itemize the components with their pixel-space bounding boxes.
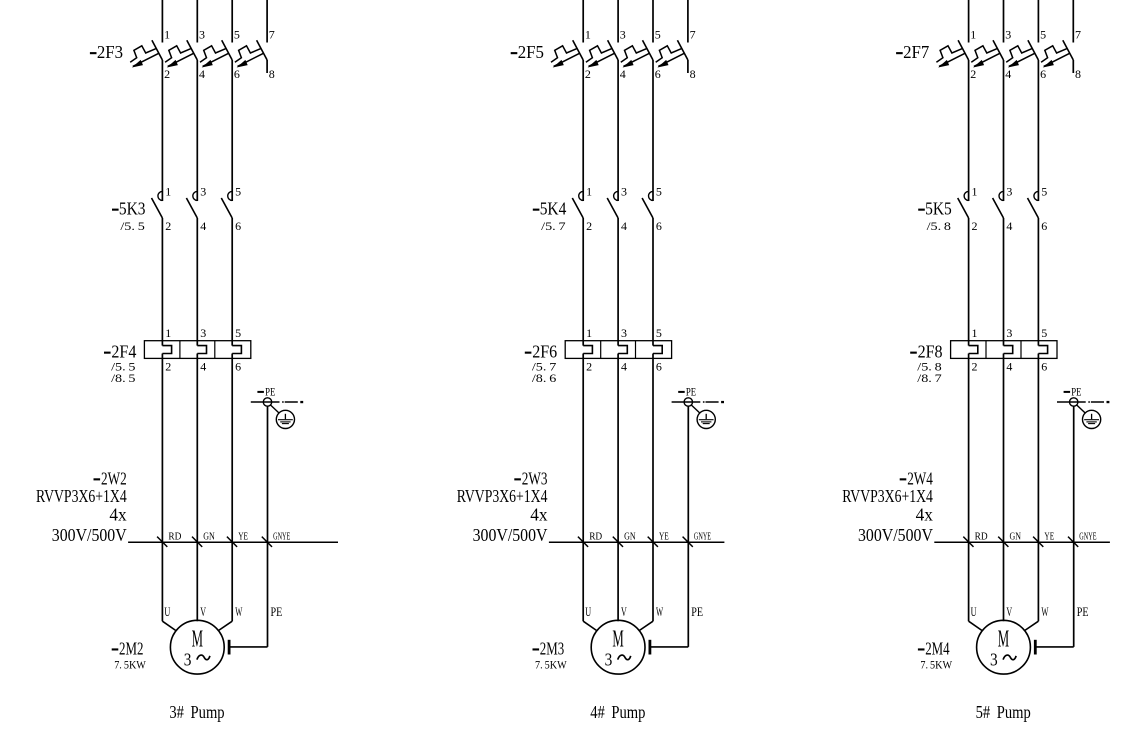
svg-text:YE: YE xyxy=(659,531,669,543)
heater element of -2F8 phase 3 xyxy=(1038,346,1047,354)
wire: contactor to overload relay phase 1 (branch 3) xyxy=(968,218,970,346)
motor frame earth terminal bar (branch 2) xyxy=(649,640,652,655)
wire: PE to motor frame (branch 3) xyxy=(1036,646,1074,648)
svg-text:6: 6 xyxy=(235,360,241,374)
svg-text:4: 4 xyxy=(1005,67,1011,81)
svg-text:3: 3 xyxy=(605,649,613,669)
svg-text:5: 5 xyxy=(235,185,241,199)
svg-text:2: 2 xyxy=(972,219,978,233)
cable label -2W4 xyxy=(900,469,933,489)
motor frame earth terminal bar (branch 3) xyxy=(1034,640,1037,655)
svg-text:4: 4 xyxy=(1006,219,1012,233)
svg-text:U: U xyxy=(585,604,591,619)
wire: branch to protective earth symbol (branch 3) xyxy=(1077,405,1086,413)
cable core marker GNYE (branch 1) xyxy=(262,531,291,547)
contactor label -5K5 xyxy=(918,199,952,219)
circuit breaker -2F5 pole 7-8 xyxy=(656,40,688,67)
contactor -5K5 contact 5-6 xyxy=(1028,191,1039,218)
svg-text:/8. 7: /8. 7 xyxy=(917,373,942,385)
svg-text:7: 7 xyxy=(1075,28,1081,42)
wire: motor lead W diagonal (branch 1) xyxy=(219,621,233,630)
svg-text:6: 6 xyxy=(1041,219,1047,233)
cable core marker YE (branch 2) xyxy=(648,531,669,547)
svg-text:6: 6 xyxy=(235,219,241,233)
label -PE (branch 1) xyxy=(257,386,275,398)
svg-text:5: 5 xyxy=(1040,28,1046,42)
svg-text:4: 4 xyxy=(621,360,627,374)
svg-text:5: 5 xyxy=(1041,185,1047,199)
wire: breaker to contactor phase 1 (branch 3) xyxy=(968,60,970,201)
wire: incoming phase 3 (branch 2) xyxy=(652,0,654,43)
wire: motor lead W diagonal (branch 3) xyxy=(1025,621,1039,630)
svg-text:2M3: 2M3 xyxy=(540,639,565,659)
wire: breaker to contactor phase 1 (branch 2) xyxy=(582,60,584,201)
svg-text:W: W xyxy=(656,604,664,619)
cable core marker GNYE (branch 2) xyxy=(683,531,712,547)
wire: breaker to contactor phase 2 (branch 3) xyxy=(1003,60,1005,201)
wire: contactor to overload relay phase 2 (branch 1) xyxy=(196,218,198,346)
wire: overload relay to motor phase 3 (branch 3) xyxy=(1037,354,1039,622)
svg-text:PE: PE xyxy=(271,604,283,619)
wire: breaker pole 8 stub (branch 3) xyxy=(1072,60,1074,73)
svg-text:2M4: 2M4 xyxy=(925,639,950,659)
svg-text:1: 1 xyxy=(972,326,978,340)
wire: branch to protective earth symbol (branch 2) xyxy=(691,405,700,413)
contactor label -5K3 xyxy=(112,199,146,219)
relay label -2F4 xyxy=(104,342,137,362)
wire: overload relay to motor phase 2 (branch 1) xyxy=(196,354,198,622)
svg-text:3: 3 xyxy=(200,326,206,340)
svg-text:6: 6 xyxy=(656,360,662,374)
svg-text:5: 5 xyxy=(655,28,661,42)
wire: overload relay to motor phase 2 (branch 3) xyxy=(1003,354,1005,622)
svg-text:8: 8 xyxy=(269,67,275,81)
motor label -2M4 xyxy=(918,639,950,659)
svg-text:3: 3 xyxy=(621,185,627,199)
svg-text:/5. 7: /5. 7 xyxy=(541,221,566,233)
relay label -2F6 xyxy=(525,342,558,362)
svg-text:6: 6 xyxy=(1040,67,1046,81)
svg-text:7. 5KW: 7. 5KW xyxy=(535,660,567,672)
wire: breaker to contactor phase 3 (branch 2) xyxy=(652,60,654,201)
wire: overload relay to motor phase 2 (branch 2) xyxy=(617,354,619,622)
svg-text:3# Pump: 3# Pump xyxy=(169,702,224,722)
svg-text:2: 2 xyxy=(164,67,170,81)
svg-text:V: V xyxy=(200,604,206,619)
svg-text:3: 3 xyxy=(620,28,626,42)
svg-text:YE: YE xyxy=(1044,531,1054,543)
svg-text:5: 5 xyxy=(656,326,662,340)
wire: PE bus dash-dot continuation (branch 2) xyxy=(703,401,724,403)
wire: breaker pole 8 stub (branch 1) xyxy=(266,60,268,73)
circuit breaker -2F3 pole 5-6 xyxy=(200,40,232,67)
wire: overload relay to motor phase 1 (branch 2) xyxy=(582,354,584,622)
svg-text:/8. 6: /8. 6 xyxy=(532,373,557,385)
svg-text:2F7: 2F7 xyxy=(903,42,929,62)
svg-text:2F5: 2F5 xyxy=(518,42,544,62)
svg-text:8: 8 xyxy=(1075,67,1081,81)
svg-text:GNYE: GNYE xyxy=(694,531,711,543)
cable -2W2 crossing line xyxy=(128,541,338,543)
svg-text:4# Pump: 4# Pump xyxy=(590,702,645,722)
wire: contactor to overload relay phase 1 (branch 2) xyxy=(582,218,584,346)
svg-text:2: 2 xyxy=(972,360,978,374)
circuit breaker -2F5 pole 1-2 xyxy=(551,40,583,67)
circuit breaker -2F3 pole 7-8 xyxy=(235,40,267,67)
svg-text:6: 6 xyxy=(1041,360,1047,374)
svg-text:1: 1 xyxy=(586,326,592,340)
svg-text:7: 7 xyxy=(690,28,696,42)
svg-text:2F3: 2F3 xyxy=(97,42,123,62)
cable -2W4 crossing line xyxy=(934,541,1110,543)
circuit breaker -2F5 pole 3-4 xyxy=(586,40,618,67)
wire: incoming phase 4 (branch 1) xyxy=(266,0,268,43)
cable core marker YE (branch 1) xyxy=(227,531,248,547)
svg-text:5: 5 xyxy=(1041,326,1047,340)
contactor -5K5 contact 3-4 xyxy=(993,191,1004,218)
svg-text:YE: YE xyxy=(238,531,248,543)
motor label -2M3 xyxy=(533,639,565,659)
svg-text:3: 3 xyxy=(184,649,192,669)
svg-text:M: M xyxy=(612,626,623,652)
svg-text:1: 1 xyxy=(165,185,171,199)
svg-text:2: 2 xyxy=(586,360,592,374)
svg-text:5# Pump: 5# Pump xyxy=(976,702,1031,722)
cable core marker GN (branch 1) xyxy=(192,531,215,547)
heater element of -2F4 phase 1 xyxy=(162,346,171,354)
svg-text:RVVP3X6+1X4: RVVP3X6+1X4 xyxy=(457,486,548,506)
wire: motor lead W diagonal (branch 2) xyxy=(640,621,654,630)
relay label -2F8 xyxy=(910,342,943,362)
wire: incoming phase 3 (branch 1) xyxy=(231,0,233,43)
svg-text:2F4: 2F4 xyxy=(111,342,136,362)
svg-text:3: 3 xyxy=(1006,326,1012,340)
wire: overload relay to motor phase 3 (branch 2) xyxy=(652,354,654,622)
thermal overload relay -2F4 body xyxy=(144,341,250,359)
wire: PE node to motor (branch 3) xyxy=(1073,406,1075,647)
svg-text:5K4: 5K4 xyxy=(540,199,567,219)
svg-text:W: W xyxy=(1041,604,1049,619)
wire: breaker to contactor phase 3 (branch 3) xyxy=(1037,60,1039,201)
svg-text:RVVP3X6+1X4: RVVP3X6+1X4 xyxy=(36,486,127,506)
contactor -5K4 contact 3-4 xyxy=(607,191,618,218)
svg-text:4x: 4x xyxy=(916,505,934,525)
wire: motor lead U diagonal (branch 1) xyxy=(162,621,175,630)
circuit breaker -2F7 pole 7-8 xyxy=(1041,40,1073,67)
node PE (branch 2) xyxy=(684,398,692,406)
svg-text:5: 5 xyxy=(235,326,241,340)
wire: incoming phase 1 (branch 1) xyxy=(161,0,163,43)
svg-text:6: 6 xyxy=(656,219,662,233)
wire: contactor to overload relay phase 3 (branch 2) xyxy=(652,218,654,346)
svg-text:6: 6 xyxy=(234,67,240,81)
svg-text:RD: RD xyxy=(975,531,988,543)
cable core marker RD (branch 2) xyxy=(578,531,602,547)
wire: PE bus dash-dot continuation (branch 3) xyxy=(1088,401,1109,403)
svg-text:U: U xyxy=(164,604,170,619)
svg-text:2: 2 xyxy=(165,360,171,374)
svg-text:2F6: 2F6 xyxy=(532,342,557,362)
breaker label -2F3 xyxy=(90,42,123,62)
cable core marker RD (branch 3) xyxy=(963,531,987,547)
svg-text:/5. 8: /5. 8 xyxy=(917,361,942,373)
wire: incoming phase 4 (branch 3) xyxy=(1072,0,1074,43)
svg-text:3: 3 xyxy=(199,28,205,42)
heater element of -2F8 phase 2 xyxy=(1004,346,1013,354)
wire: PE to motor frame (branch 1) xyxy=(230,646,268,648)
circuit breaker -2F5 pole 5-6 xyxy=(621,40,653,67)
motor -2M4 symbol xyxy=(977,620,1031,674)
wire: incoming phase 2 (branch 2) xyxy=(617,0,619,43)
contactor -5K3 contact 3-4 xyxy=(186,191,197,218)
svg-text:2: 2 xyxy=(970,67,976,81)
motor -2M2 symbol xyxy=(170,620,224,674)
heater element of -2F4 phase 2 xyxy=(197,346,206,354)
circuit breaker -2F7 pole 1-2 xyxy=(936,40,968,67)
protective earth symbol (branch 3) xyxy=(1083,410,1101,428)
svg-text:/5. 7: /5. 7 xyxy=(532,361,557,373)
breaker label -2F5 xyxy=(511,42,544,62)
heater element of -2F4 phase 3 xyxy=(232,346,241,354)
svg-text:GNYE: GNYE xyxy=(1079,531,1096,543)
svg-text:2: 2 xyxy=(165,219,171,233)
contactor -5K3 contact 1-2 xyxy=(152,191,163,218)
svg-text:PE: PE xyxy=(691,604,703,619)
wire: incoming phase 3 (branch 3) xyxy=(1037,0,1039,43)
svg-text:4x: 4x xyxy=(530,505,548,525)
wire: incoming phase 2 (branch 1) xyxy=(196,0,198,43)
svg-text:3: 3 xyxy=(200,185,206,199)
label -PE (branch 3) xyxy=(1064,386,1082,398)
breaker label -2F7 xyxy=(896,42,929,62)
svg-text:/5. 5: /5. 5 xyxy=(111,361,136,373)
svg-text:1: 1 xyxy=(970,28,976,42)
wire: PE bus dash-dot continuation (branch 1) xyxy=(282,401,303,403)
svg-text:/5. 5: /5. 5 xyxy=(120,221,145,233)
label -PE (branch 2) xyxy=(678,386,696,398)
contactor -5K4 contact 1-2 xyxy=(572,191,583,218)
svg-text:1: 1 xyxy=(972,185,978,199)
svg-text:300V/500V: 300V/500V xyxy=(52,525,127,545)
wire: motor lead U diagonal (branch 2) xyxy=(583,621,596,630)
cable label -2W3 xyxy=(514,469,547,489)
cable core marker RD (branch 1) xyxy=(157,531,181,547)
thermal overload relay -2F8 body xyxy=(951,341,1057,359)
svg-text:5K3: 5K3 xyxy=(119,199,146,219)
svg-text:PE: PE xyxy=(686,386,696,398)
wire: breaker to contactor phase 1 (branch 1) xyxy=(161,60,163,201)
wire: incoming phase 1 (branch 3) xyxy=(968,0,970,43)
svg-text:7. 5KW: 7. 5KW xyxy=(114,660,146,672)
svg-text:7: 7 xyxy=(269,28,275,42)
svg-text:GN: GN xyxy=(624,531,636,543)
svg-text:2M2: 2M2 xyxy=(119,639,143,659)
wire: breaker to contactor phase 2 (branch 2) xyxy=(617,60,619,201)
svg-text:V: V xyxy=(1006,604,1012,619)
svg-text:2F8: 2F8 xyxy=(918,342,943,362)
svg-text:3: 3 xyxy=(1006,185,1012,199)
svg-text:PE: PE xyxy=(1071,386,1081,398)
heater element of -2F8 phase 1 xyxy=(969,346,978,354)
svg-text:8: 8 xyxy=(690,67,696,81)
cable core marker YE (branch 3) xyxy=(1033,531,1054,547)
svg-text:PE: PE xyxy=(1077,604,1089,619)
wire: contactor to overload relay phase 3 (branch 3) xyxy=(1037,218,1039,346)
svg-text:2: 2 xyxy=(585,67,591,81)
svg-text:1: 1 xyxy=(164,28,170,42)
svg-text:7. 5KW: 7. 5KW xyxy=(920,660,952,672)
wire: overload relay to motor phase 3 (branch 1) xyxy=(231,354,233,622)
svg-text:GN: GN xyxy=(1010,531,1022,543)
svg-text:M: M xyxy=(192,626,203,652)
wire: motor lead U diagonal (branch 3) xyxy=(969,621,982,630)
svg-text:3: 3 xyxy=(621,326,627,340)
svg-text:1: 1 xyxy=(586,185,592,199)
svg-text:U: U xyxy=(971,604,977,619)
motor -2M3 symbol xyxy=(591,620,645,674)
svg-text:V: V xyxy=(621,604,627,619)
wire: PE bus solid segment (branch 3) xyxy=(1057,401,1086,403)
svg-text:1: 1 xyxy=(585,28,591,42)
wire: contactor to overload relay phase 3 (branch 1) xyxy=(231,218,233,346)
node PE (branch 1) xyxy=(263,398,271,406)
svg-text:3: 3 xyxy=(1005,28,1011,42)
circuit breaker -2F7 pole 3-4 xyxy=(971,40,1003,67)
circuit breaker -2F7 pole 5-6 xyxy=(1006,40,1038,67)
svg-text:5: 5 xyxy=(234,28,240,42)
wire: overload relay to motor phase 1 (branch 1) xyxy=(161,354,163,622)
svg-text:2: 2 xyxy=(586,219,592,233)
contactor label -5K4 xyxy=(533,199,567,219)
wire: breaker to contactor phase 3 (branch 1) xyxy=(231,60,233,201)
svg-text:300V/500V: 300V/500V xyxy=(858,525,933,545)
wire: PE node to motor (branch 2) xyxy=(687,406,689,647)
svg-text:GN: GN xyxy=(203,531,215,543)
contactor -5K5 contact 1-2 xyxy=(958,191,969,218)
motor frame earth terminal bar (branch 1) xyxy=(228,640,231,655)
svg-text:GNYE: GNYE xyxy=(273,531,290,543)
cable label -2W2 xyxy=(94,469,127,489)
node PE (branch 3) xyxy=(1070,398,1078,406)
svg-text:RVVP3X6+1X4: RVVP3X6+1X4 xyxy=(842,486,933,506)
cable core marker GNYE (branch 3) xyxy=(1068,531,1097,547)
wire: breaker to contactor phase 2 (branch 1) xyxy=(196,60,198,201)
thermal overload relay -2F6 body xyxy=(565,341,671,359)
wire: incoming phase 2 (branch 3) xyxy=(1003,0,1005,43)
wire: contactor to overload relay phase 2 (branch 2) xyxy=(617,218,619,346)
svg-text:4: 4 xyxy=(1006,360,1012,374)
wire: overload relay to motor phase 1 (branch 3) xyxy=(968,354,970,622)
svg-text:4x: 4x xyxy=(109,505,127,525)
wire: contactor to overload relay phase 2 (branch 3) xyxy=(1003,218,1005,346)
svg-text:5K5: 5K5 xyxy=(925,199,952,219)
wire: PE bus solid segment (branch 1) xyxy=(251,401,280,403)
cable core marker GN (branch 2) xyxy=(613,531,636,547)
svg-text:6: 6 xyxy=(655,67,661,81)
circuit breaker -2F3 pole 3-4 xyxy=(165,40,197,67)
wire: incoming phase 4 (branch 2) xyxy=(687,0,689,43)
heater element of -2F6 phase 1 xyxy=(583,346,592,354)
svg-text:4: 4 xyxy=(620,67,626,81)
svg-text:4: 4 xyxy=(200,360,206,374)
heater element of -2F6 phase 2 xyxy=(618,346,627,354)
wire: contactor to overload relay phase 1 (branch 1) xyxy=(161,218,163,346)
cable core marker GN (branch 3) xyxy=(998,531,1021,547)
svg-text:W: W xyxy=(235,604,243,619)
wire: PE node to motor (branch 1) xyxy=(267,406,269,647)
wire: PE bus solid segment (branch 2) xyxy=(672,401,701,403)
svg-text:4: 4 xyxy=(199,67,205,81)
svg-text:M: M xyxy=(998,626,1009,652)
wire: PE to motor frame (branch 2) xyxy=(651,646,689,648)
svg-text:300V/500V: 300V/500V xyxy=(473,525,548,545)
svg-text:/5. 8: /5. 8 xyxy=(927,221,952,233)
cable -2W3 crossing line xyxy=(549,541,725,543)
motor label -2M2 xyxy=(112,639,144,659)
svg-text:5: 5 xyxy=(656,185,662,199)
svg-text:PE: PE xyxy=(265,386,275,398)
wire: branch to protective earth symbol (branch 1) xyxy=(271,405,280,413)
svg-text:4: 4 xyxy=(621,219,627,233)
protective earth symbol (branch 1) xyxy=(276,410,294,428)
heater element of -2F6 phase 3 xyxy=(653,346,662,354)
contactor -5K3 contact 5-6 xyxy=(221,191,232,218)
svg-text:RD: RD xyxy=(168,531,181,543)
wire: incoming phase 1 (branch 2) xyxy=(582,0,584,43)
svg-text:1: 1 xyxy=(165,326,171,340)
svg-text:RD: RD xyxy=(589,531,602,543)
svg-text:4: 4 xyxy=(200,219,206,233)
protective earth symbol (branch 2) xyxy=(697,410,715,428)
contactor -5K4 contact 5-6 xyxy=(642,191,653,218)
wire: breaker pole 8 stub (branch 2) xyxy=(687,60,689,73)
circuit breaker -2F3 pole 1-2 xyxy=(130,40,162,67)
svg-text:/8. 5: /8. 5 xyxy=(111,373,136,385)
svg-text:3: 3 xyxy=(990,649,998,669)
